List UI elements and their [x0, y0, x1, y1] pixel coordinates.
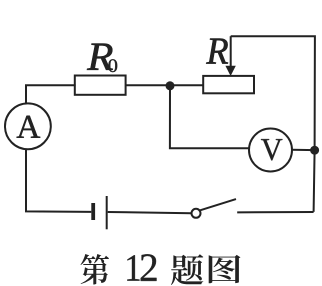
voltmeter letter V	[261, 139, 282, 160]
rheostat slider arrowhead	[225, 66, 235, 76]
caption digit 2	[141, 254, 157, 281]
wire switch contact to right rail	[237, 211, 313, 213]
junction node at voltmeter/right rail	[310, 146, 319, 155]
ammeter letter A	[17, 116, 41, 138]
switch S pivot	[192, 209, 201, 218]
battery negative plate (short thick)	[91, 203, 95, 220]
ammeter A1 body	[5, 103, 51, 149]
wire R0 to rheostat	[126, 84, 204, 86]
wire top rail	[231, 36, 315, 212]
caption char 题	[171, 254, 203, 285]
rheostat slider stem	[230, 36, 232, 67]
caption char 图	[209, 255, 241, 283]
switch lever	[200, 199, 236, 210]
battery positive plate (long)	[106, 196, 108, 229]
caption char 第	[81, 254, 110, 285]
wire ammeter to bottom-left corner to battery	[26, 149, 91, 212]
caption digit 1	[127, 255, 139, 280]
label R0 subscript 0	[108, 59, 117, 72]
label R0 letter R	[87, 44, 113, 70]
wire battery to switch	[108, 212, 192, 213]
wire voltmeter to right rail	[292, 149, 315, 151]
resistor R0	[75, 76, 126, 95]
junction node at R0/rheostat/voltmeter branch	[166, 81, 175, 90]
rheostat R body	[203, 76, 254, 93]
voltmeter V1 body	[249, 129, 292, 172]
label R	[206, 39, 228, 64]
wire junction A down to voltmeter row	[170, 86, 249, 149]
wire top-left corner to ammeter	[26, 85, 76, 103]
